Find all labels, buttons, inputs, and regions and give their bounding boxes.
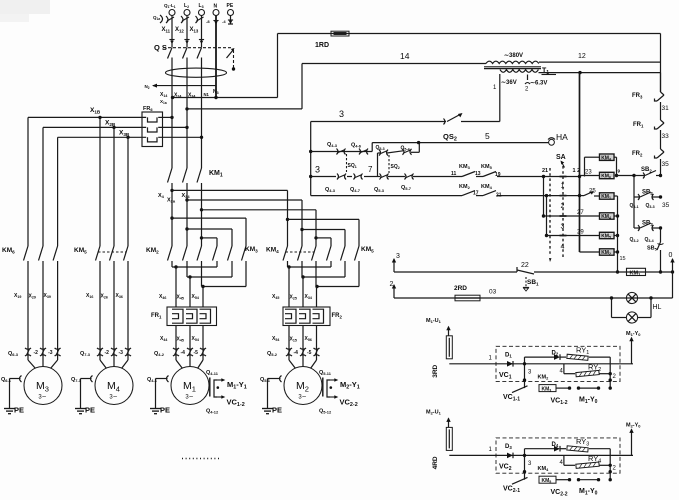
terminal PE bbox=[227, 3, 234, 16]
svg-text:35: 35 bbox=[662, 202, 670, 209]
cable oval bbox=[166, 68, 227, 77]
label 2 3 bbox=[528, 461, 617, 472]
svg-text:L3: L3 bbox=[199, 3, 204, 9]
svg-text:-4: -4 bbox=[222, 19, 226, 24]
wire M1 merge C bbox=[201, 261, 246, 288]
switch QS linkage bbox=[163, 48, 235, 71]
svg-text:35: 35 bbox=[662, 161, 670, 168]
svg-text:∼36V: ∼36V bbox=[501, 80, 517, 86]
svg-text:X54: X54 bbox=[272, 336, 279, 342]
svg-text:13: 13 bbox=[475, 171, 481, 177]
svg-text:∼6.3V: ∼6.3V bbox=[530, 81, 547, 87]
wire 14 transformer feeder bbox=[185, 51, 486, 111]
transformer tap 1 bbox=[493, 74, 500, 122]
resistor RY~2~ bbox=[576, 362, 601, 376]
svg-text:SB5: SB5 bbox=[647, 246, 658, 252]
svg-text:X1a: X1a bbox=[160, 99, 167, 105]
coil KM6 box2 bbox=[600, 172, 615, 179]
wire M2 feed B bbox=[185, 198, 302, 246]
svg-text:27: 27 bbox=[577, 210, 584, 216]
wire branch L bbox=[560, 455, 612, 481]
svg-text:X39: X39 bbox=[44, 293, 51, 299]
wire M1 merge A bbox=[172, 261, 217, 269]
contact Q4-6 row1 bbox=[351, 143, 368, 155]
svg-text:X2B: X2B bbox=[105, 120, 116, 127]
fuse 2RD bbox=[454, 285, 497, 301]
wire 12 right edge drop bbox=[660, 34, 662, 93]
svg-text:KM1: KM1 bbox=[630, 271, 642, 277]
svg-text:Q6-3: Q6-3 bbox=[8, 351, 19, 357]
wire rowA to box2 bbox=[580, 170, 600, 176]
labels X M2 upper bbox=[272, 294, 312, 301]
svg-text:15: 15 bbox=[620, 256, 626, 262]
svg-text:X34: X34 bbox=[182, 193, 191, 199]
svg-text:SQ1: SQ1 bbox=[348, 163, 357, 169]
motor M2 brake terminals bbox=[319, 370, 360, 415]
svg-text:21: 21 bbox=[496, 193, 502, 199]
selector SA position 1 bbox=[560, 177, 567, 190]
svg-text:PE: PE bbox=[272, 406, 282, 415]
resistor RY~1~ bbox=[567, 345, 589, 360]
wire module bottom bbox=[556, 386, 600, 389]
contactor KM5 M4 bbox=[74, 246, 128, 261]
svg-text:M1-Y0: M1-Y0 bbox=[626, 331, 641, 337]
wire box6 feed bbox=[580, 251, 600, 253]
contact Q5-3 rowA bbox=[374, 174, 389, 194]
wire M2 merge B bbox=[301, 261, 345, 279]
button SB5 bbox=[647, 228, 664, 274]
wire 3 control feed bbox=[311, 109, 500, 122]
svg-text:Q4-7: Q4-7 bbox=[350, 187, 361, 193]
module box VC~2~ bbox=[489, 438, 621, 473]
contact KM~2~ bbox=[512, 374, 549, 392]
coil KM2 box6 bbox=[600, 249, 615, 256]
svg-text:VC1-1: VC1-1 bbox=[503, 394, 520, 403]
contact FR1 bbox=[633, 120, 669, 149]
svg-text:HL: HL bbox=[653, 304, 662, 311]
button SB2 bbox=[641, 167, 656, 179]
label X4 row bbox=[158, 193, 190, 204]
wire M3 columns bbox=[28, 117, 58, 356]
connector row Q6 bbox=[8, 348, 61, 357]
wire phase 3 terminal drop bbox=[190, 16, 205, 48]
svg-text:KM4: KM4 bbox=[481, 184, 493, 190]
contactor KM2 bbox=[146, 246, 202, 261]
label X1a bbox=[160, 99, 167, 105]
labels X M2 lower bbox=[272, 336, 312, 343]
wire M~2~-Y~0~ bbox=[626, 422, 641, 455]
svg-text:X11: X11 bbox=[162, 27, 171, 33]
selector SA position 2 bbox=[560, 196, 567, 210]
contact Q4-3 rowA bbox=[325, 174, 346, 194]
selector SA position 4 bbox=[560, 236, 567, 251]
svg-text:X1B: X1B bbox=[90, 107, 101, 114]
wire rowA to box1 bbox=[580, 157, 600, 176]
svg-text:SB3: SB3 bbox=[642, 221, 653, 227]
svg-text:VC2: VC2 bbox=[499, 463, 512, 472]
contactor KM3 bbox=[213, 246, 259, 261]
contactor KM4 bbox=[266, 246, 316, 261]
wire phase 1 through cable bbox=[171, 58, 173, 169]
label 7 bbox=[368, 165, 373, 174]
svg-text:3: 3 bbox=[339, 109, 344, 119]
svg-text:0: 0 bbox=[669, 252, 673, 259]
wire branch U bbox=[523, 357, 610, 388]
fuse 3RD bbox=[432, 336, 452, 378]
labels X M4 bbox=[86, 293, 123, 300]
wire branch U bbox=[523, 449, 610, 480]
svg-text:Q4-6: Q4-6 bbox=[351, 143, 362, 149]
svg-text:M2-U1: M2-U1 bbox=[426, 409, 442, 415]
svg-text:Q4-1: Q4-1 bbox=[147, 377, 158, 383]
svg-text:3∼: 3∼ bbox=[109, 395, 117, 401]
svg-text:4RD: 4RD bbox=[432, 456, 439, 469]
svg-text:2: 2 bbox=[613, 374, 617, 380]
svg-text:17: 17 bbox=[473, 191, 479, 197]
diode D~4~ bbox=[552, 442, 561, 452]
svg-text:X45: X45 bbox=[177, 337, 184, 343]
wire M2 merge A bbox=[287, 261, 331, 269]
svg-text:Q3-3: Q3-3 bbox=[646, 203, 655, 209]
wire PE stub bbox=[222, 16, 233, 25]
svg-text:23: 23 bbox=[585, 170, 592, 176]
svg-text:5: 5 bbox=[485, 131, 490, 141]
wire M2 merge C bbox=[315, 261, 359, 288]
coil KM4 box1 bbox=[600, 154, 615, 161]
selector link A-C bbox=[542, 175, 545, 218]
motor M3 PE bbox=[1, 376, 24, 415]
wire 2 bottom bbox=[390, 272, 673, 300]
svg-text:3∼: 3∼ bbox=[298, 395, 306, 401]
svg-text:X56: X56 bbox=[305, 336, 312, 342]
label X34 bbox=[188, 93, 195, 99]
svg-text:-4: -4 bbox=[294, 350, 299, 356]
labels X M3 bbox=[14, 293, 51, 300]
svg-text:X4: X4 bbox=[158, 193, 165, 199]
Q1a hook bbox=[153, 15, 163, 23]
svg-text:7: 7 bbox=[368, 165, 373, 174]
svg-text:2: 2 bbox=[525, 87, 529, 93]
wire SB2 row bbox=[617, 174, 663, 177]
contactor KM5 M2 bbox=[327, 246, 375, 261]
contactor KM1 main bbox=[168, 168, 223, 183]
svg-text:X16: X16 bbox=[86, 293, 93, 299]
svg-text:Q4-3: Q4-3 bbox=[325, 187, 336, 193]
svg-text:2: 2 bbox=[613, 465, 617, 471]
label VC~1-2~ bbox=[551, 397, 568, 406]
svg-text:N2: N2 bbox=[145, 84, 150, 90]
wire row D bbox=[547, 230, 600, 236]
wire 12 bbox=[539, 53, 661, 62]
motor M3 bbox=[24, 356, 62, 405]
svg-text:FR1: FR1 bbox=[633, 122, 644, 128]
svg-text:Q4-11: Q4-11 bbox=[206, 370, 219, 376]
svg-text:D2: D2 bbox=[552, 350, 559, 356]
limit switch SQ2 linkage bbox=[389, 155, 400, 173]
svg-text:Q1a: Q1a bbox=[153, 15, 160, 21]
wire branch L bbox=[560, 364, 612, 390]
svg-text:-2: -2 bbox=[105, 350, 110, 356]
svg-text:4: 4 bbox=[560, 368, 564, 374]
svg-text:03: 03 bbox=[489, 289, 497, 296]
motor M2 bbox=[284, 356, 322, 405]
svg-text:Q1-L1: Q1-L1 bbox=[164, 3, 176, 9]
svg-text:KM1: KM1 bbox=[209, 170, 223, 179]
svg-text:QS2: QS2 bbox=[443, 132, 457, 143]
svg-text:-3: -3 bbox=[48, 350, 53, 356]
wire SB3 branch bbox=[634, 197, 662, 230]
svg-text:D3: D3 bbox=[505, 444, 512, 450]
connector row Q7 bbox=[80, 348, 131, 357]
selector link B-D bbox=[545, 194, 548, 237]
svg-text:X36: X36 bbox=[116, 293, 123, 299]
svg-text:M2-Y0: M2-Y0 bbox=[626, 422, 641, 428]
svg-text:M2-Y1: M2-Y1 bbox=[340, 380, 360, 391]
wire rowB to box3 bbox=[580, 189, 600, 197]
switch QS pole 1 bbox=[168, 48, 173, 62]
label 36V bbox=[501, 80, 517, 86]
contact box KM~5~ bbox=[539, 476, 556, 484]
svg-text:M1: M1 bbox=[183, 380, 196, 393]
coil KM5 box5 bbox=[600, 232, 615, 239]
wire M4 columns bbox=[100, 117, 128, 356]
svg-text:M1-U1: M1-U1 bbox=[426, 318, 442, 324]
svg-text:FR1: FR1 bbox=[151, 313, 162, 319]
diode D~1~ bbox=[505, 352, 513, 366]
svg-text:-2: -2 bbox=[34, 350, 39, 356]
svg-text:D1: D1 bbox=[505, 352, 512, 358]
contact Q5-3 sub bbox=[376, 145, 389, 156]
svg-text:D4: D4 bbox=[552, 442, 559, 448]
svg-text:KM3: KM3 bbox=[459, 164, 471, 170]
selector SA position 3 bbox=[560, 216, 567, 231]
svg-text:Q7-3: Q7-3 bbox=[80, 351, 91, 357]
svg-text:14: 14 bbox=[400, 51, 410, 61]
wire M2 lower columns bbox=[289, 326, 317, 357]
svg-text:Q5-2: Q5-2 bbox=[267, 351, 278, 357]
svg-text:-5: -5 bbox=[307, 350, 312, 356]
svg-text:31: 31 bbox=[662, 105, 670, 112]
svg-text:Q5-12: Q5-12 bbox=[319, 409, 332, 415]
svg-text:29: 29 bbox=[577, 230, 584, 236]
svg-text:N: N bbox=[214, 4, 218, 10]
motor M4 PE bbox=[71, 376, 95, 415]
svg-text:19: 19 bbox=[495, 172, 501, 178]
label M~2~-U~1~ bbox=[426, 409, 451, 427]
wire phase 3 through cable bbox=[201, 58, 203, 169]
resistor RY~4~ bbox=[576, 454, 601, 468]
svg-text:X46: X46 bbox=[159, 294, 166, 300]
svg-text:Q5-3: Q5-3 bbox=[376, 145, 385, 151]
svg-text:X14: X14 bbox=[160, 92, 167, 98]
contact KM4 aux bbox=[481, 184, 502, 199]
svg-text:M3: M3 bbox=[36, 380, 49, 393]
svg-text:N3: N3 bbox=[213, 89, 219, 95]
wire KM3 feed A bbox=[170, 216, 246, 246]
contact Q5-4 sub bbox=[401, 146, 412, 155]
wire M1 lower columns bbox=[176, 326, 203, 357]
svg-text:VC2-2: VC2-2 bbox=[551, 489, 568, 498]
svg-text:Q3-2: Q3-2 bbox=[630, 237, 639, 243]
wire 3 bottom bbox=[392, 253, 674, 274]
svg-text:FR6: FR6 bbox=[143, 106, 153, 112]
switch QS label bbox=[154, 43, 167, 52]
coil KM1 box3 bbox=[600, 193, 615, 200]
wire M2 columns bbox=[289, 267, 317, 307]
svg-text:-5: -5 bbox=[194, 350, 199, 356]
svg-text:3: 3 bbox=[315, 165, 320, 175]
wire KM5 feed C bbox=[314, 236, 331, 246]
label M~1~-Y~0~ bbox=[579, 488, 598, 497]
diode D~2~ bbox=[552, 350, 561, 360]
svg-text:X34: X34 bbox=[305, 294, 312, 300]
wire 1RD feeder bbox=[278, 33, 661, 35]
svg-text:FR3: FR3 bbox=[632, 93, 643, 99]
label N3 bbox=[213, 89, 219, 95]
svg-text:X29: X29 bbox=[29, 294, 36, 300]
svg-text:VC1-2: VC1-2 bbox=[551, 397, 568, 406]
svg-text:3∼: 3∼ bbox=[185, 395, 193, 401]
svg-text:KM3: KM3 bbox=[542, 386, 552, 392]
svg-text:9: 9 bbox=[618, 169, 621, 174]
contact KM2 aux bbox=[459, 184, 479, 197]
svg-text:Q5-7: Q5-7 bbox=[401, 185, 412, 191]
contact Q4-7 rowA bbox=[350, 174, 363, 194]
connector row Q5-2 bbox=[267, 348, 320, 357]
wire bus B1 bbox=[28, 107, 174, 119]
wire bus B2 bbox=[43, 120, 189, 130]
lamp HL2 bbox=[612, 298, 662, 323]
connector row Q4-2 bbox=[154, 348, 206, 357]
label 2 3 bbox=[528, 369, 617, 380]
svg-text:PE: PE bbox=[227, 3, 234, 9]
wire control rowA bbox=[311, 176, 580, 178]
terminal N bbox=[213, 4, 219, 16]
svg-text:X3B: X3B bbox=[119, 130, 130, 137]
label VC~2-1~ bbox=[503, 485, 520, 494]
svg-text:Q7-1: Q7-1 bbox=[71, 377, 82, 383]
resistor RY~3~ bbox=[567, 437, 589, 452]
switch QS2 bbox=[443, 113, 490, 143]
wire KM3 feed B bbox=[185, 227, 232, 246]
svg-text:X13: X13 bbox=[190, 27, 199, 33]
svg-text:3: 3 bbox=[561, 224, 565, 231]
motor M4 bbox=[95, 356, 133, 405]
svg-text:Q4-3: Q4-3 bbox=[327, 142, 338, 148]
svg-text:X26: X26 bbox=[101, 294, 108, 300]
wire M1 columns bbox=[176, 267, 203, 307]
svg-text:11: 11 bbox=[451, 171, 457, 177]
terminal L2 bbox=[184, 3, 190, 16]
motor M1 brake terminals bbox=[206, 370, 247, 415]
svg-text:12: 12 bbox=[578, 53, 586, 60]
svg-text:KM6: KM6 bbox=[2, 247, 15, 254]
svg-text:4: 4 bbox=[560, 460, 564, 466]
svg-text:-4: -4 bbox=[181, 350, 186, 356]
diode D~3~ bbox=[505, 444, 513, 458]
svg-text:M1-Y0: M1-Y0 bbox=[579, 396, 598, 405]
svg-text:2: 2 bbox=[390, 281, 394, 288]
svg-text:VC2-2: VC2-2 bbox=[340, 398, 358, 409]
label 3 rowA bbox=[315, 165, 320, 175]
label N1 bbox=[204, 92, 210, 97]
coil KM1 bbox=[627, 268, 646, 276]
svg-text:21: 21 bbox=[542, 168, 548, 174]
wire bus B3 bbox=[58, 130, 204, 140]
bell HA bbox=[548, 132, 568, 145]
decorative corner artifact bbox=[0, 0, 50, 22]
svg-text:X19: X19 bbox=[14, 293, 21, 299]
svg-text:KM2: KM2 bbox=[146, 247, 159, 254]
contact KM5 aux bbox=[475, 164, 501, 178]
wire row C bbox=[544, 210, 600, 216]
wire 12 vertical bbox=[578, 73, 581, 252]
motor M1 bbox=[171, 356, 209, 405]
label VC~1-1~ bbox=[503, 394, 520, 403]
svg-text:PE: PE bbox=[14, 406, 24, 415]
label X14 bbox=[160, 92, 167, 98]
svg-text:M2: M2 bbox=[296, 380, 309, 393]
fuse 4RD bbox=[432, 427, 452, 469]
limit switch SQ1 linkage bbox=[347, 154, 357, 172]
svg-text:33: 33 bbox=[662, 133, 670, 140]
svg-text:1: 1 bbox=[493, 85, 497, 91]
svg-text:KM5: KM5 bbox=[74, 247, 87, 254]
wire M~1~-Y~0~ bbox=[626, 331, 641, 364]
wire phase 2 below KM1 bbox=[186, 183, 188, 246]
button SB1 bbox=[517, 262, 539, 291]
svg-text:3RD: 3RD bbox=[432, 364, 439, 377]
contactor KM6 bbox=[2, 246, 58, 261]
switch QS pole 3 bbox=[197, 48, 202, 62]
wire phase 1 terminal drop bbox=[162, 16, 175, 48]
svg-text:FR2: FR2 bbox=[332, 313, 343, 319]
label 21 bbox=[542, 168, 548, 174]
svg-text:KM5: KM5 bbox=[481, 164, 493, 170]
fuse 1RD bbox=[315, 31, 349, 49]
svg-text:1RD: 1RD bbox=[315, 42, 329, 49]
wire sub-row bbox=[378, 143, 420, 177]
motor M1 PE bbox=[147, 376, 170, 415]
svg-text:VC1-2: VC1-2 bbox=[227, 398, 245, 409]
label 6.3V bbox=[530, 81, 547, 87]
svg-text:X25: X25 bbox=[290, 295, 297, 301]
label VC~2-2~ bbox=[551, 489, 568, 498]
button SB4 bbox=[630, 190, 670, 210]
svg-text:SB1: SB1 bbox=[527, 279, 539, 286]
contact Q4-3 row1 bbox=[327, 142, 346, 155]
label M~1~-U~1~ bbox=[426, 318, 451, 336]
contact FR3 bbox=[632, 73, 669, 120]
svg-text:X44: X44 bbox=[160, 336, 167, 342]
wire M2 feed A bbox=[170, 189, 287, 246]
motor M2 PE bbox=[260, 376, 282, 415]
svg-text:Q3-4: Q3-4 bbox=[645, 237, 654, 243]
svg-text:VC2-1: VC2-1 bbox=[503, 485, 520, 494]
svg-text:HA: HA bbox=[556, 132, 568, 142]
control bus riser bbox=[309, 122, 312, 196]
svg-text:Q4-2: Q4-2 bbox=[154, 351, 165, 357]
svg-text:4: 4 bbox=[561, 244, 565, 251]
node 0 bbox=[669, 252, 675, 272]
svg-text:KM5: KM5 bbox=[542, 478, 552, 484]
svg-text:KM3: KM3 bbox=[245, 246, 258, 253]
svg-text:2: 2 bbox=[561, 203, 565, 210]
svg-text:FR2: FR2 bbox=[632, 151, 643, 157]
svg-text:PE: PE bbox=[160, 406, 170, 415]
terminal L1 bbox=[164, 3, 176, 16]
svg-text:X54: X54 bbox=[192, 336, 199, 342]
